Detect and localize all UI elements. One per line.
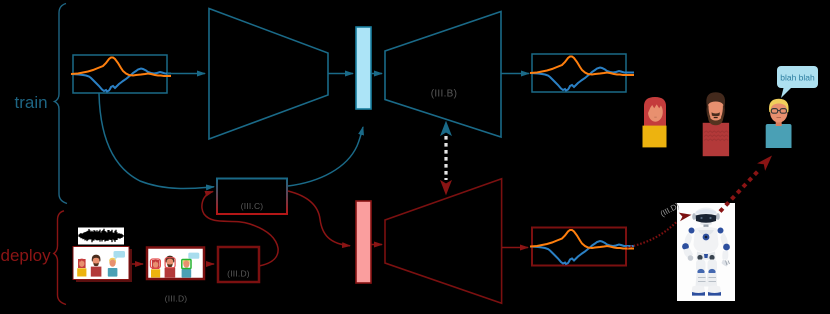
speech bubble xyxy=(777,66,818,98)
decoder trapezoid (III.B) xyxy=(385,12,501,138)
face detect rect woman xyxy=(150,259,160,268)
svg-text:blah blah: blah blah xyxy=(780,73,815,83)
wire decoder to plot2 xyxy=(501,73,529,75)
red latent bar xyxy=(356,201,371,283)
dashed wire robot to listener xyxy=(720,156,772,212)
face detect box xyxy=(147,248,204,280)
audio waveform image xyxy=(78,228,124,245)
mini people trio (people box) xyxy=(77,251,125,277)
robot photo backdrop xyxy=(677,203,735,301)
III.D box xyxy=(218,247,259,282)
svg-text:(III.D): (III.D) xyxy=(165,294,188,304)
svg-text:deploy: deploy xyxy=(1,246,52,265)
left shoulder/arm xyxy=(689,228,695,234)
III.C box (gradient border) xyxy=(217,179,287,215)
wire face box to III.D box xyxy=(206,263,214,265)
NAO robot xyxy=(682,208,730,296)
wire red decoder to plot3 xyxy=(502,247,528,249)
train brace xyxy=(55,4,68,204)
latent bar (train, cyan) xyxy=(356,27,371,109)
wire people box to face box xyxy=(132,263,143,265)
wire III.D box to III.C (red S curve) xyxy=(202,192,278,267)
plot box 3 (deploy output) xyxy=(530,228,634,266)
deploy brace xyxy=(54,211,66,305)
people box (deploy input) xyxy=(73,247,132,283)
head xyxy=(695,208,718,224)
mini people trio (face box) xyxy=(150,253,199,278)
wire plot1 to III.C (teal curve) xyxy=(99,94,214,189)
wire encoder to latent xyxy=(328,73,353,75)
torso xyxy=(694,227,719,253)
svg-text:(III.D): (III.D) xyxy=(227,269,250,279)
plot box 1 (train input) xyxy=(71,55,171,93)
plot box 2 (train output) xyxy=(530,54,634,92)
wire plot1 to encoder xyxy=(167,73,205,75)
face detect rect listener (green) xyxy=(182,260,191,269)
svg-text:train: train xyxy=(15,93,48,112)
wire III.C to latent (teal curve) xyxy=(288,127,363,186)
wire red latent to red decoder xyxy=(371,244,382,246)
wire plot3 to robot (dotted) xyxy=(627,222,677,248)
wire III.C to red latent (red curve) xyxy=(288,191,350,246)
svg-text:(III.C): (III.C) xyxy=(241,201,264,211)
right leg xyxy=(708,260,718,272)
face detect rect man xyxy=(165,258,175,268)
svg-text:(III.B): (III.B) xyxy=(431,89,458,100)
neck xyxy=(704,225,709,228)
man icon xyxy=(703,92,729,156)
wire latent to decoder xyxy=(371,73,382,75)
left leg xyxy=(696,260,706,272)
dashed coupling arrow between decoders xyxy=(441,122,451,194)
red decoder trapezoid xyxy=(385,179,502,304)
listener icon xyxy=(766,99,792,148)
right shoulder/arm xyxy=(718,228,724,234)
pelvis xyxy=(697,252,716,260)
woman icon xyxy=(643,97,667,147)
encoder trapezoid xyxy=(209,9,328,140)
